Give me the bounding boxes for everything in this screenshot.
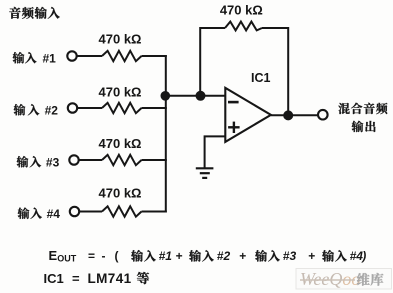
svg-text:470 kΩ: 470 kΩ: [99, 186, 142, 201]
input #3 label 输入 #3: [17, 155, 60, 169]
wire: resistor R1 to summing bus: [142, 55, 167, 57]
wire: summing node to inverting input: [165, 95, 225, 97]
title label: 音频输入 (audio inputs): [9, 7, 60, 19]
svg-text:-: -: [102, 249, 106, 263]
resistor R3 value label 470 kΩ: [99, 136, 142, 151]
svg-text:E: E: [49, 248, 58, 263]
svg-text:#4: #4: [350, 249, 364, 263]
input #4 label 输入 #4: [18, 207, 61, 221]
svg-text:470 kΩ: 470 kΩ: [99, 32, 142, 47]
svg-text:=: =: [88, 249, 95, 263]
output terminal: [318, 110, 328, 120]
svg-text:#4: #4: [47, 207, 61, 221]
wire: non-inverting input to ground: [205, 136, 226, 168]
svg-text:IC1: IC1: [251, 71, 271, 85]
input #4 terminal: [70, 207, 79, 216]
svg-text:OUT: OUT: [57, 254, 76, 264]
ground: [196, 168, 214, 178]
svg-text:#3: #3: [283, 249, 297, 263]
svg-text:+: +: [239, 249, 246, 263]
junction: summing bus to op-amp branch: [161, 91, 171, 101]
resistor R4 value label 470 kΩ: [99, 186, 142, 201]
input #2 terminal: [68, 103, 77, 112]
wire: resistor R4 to summing bus: [142, 211, 167, 213]
note text: IC1 = LM741 等: [44, 271, 150, 286]
feedback resistor R5 470k: [225, 22, 262, 31]
wire: input #2 terminal to resistor R2: [77, 107, 102, 109]
svg-text:470 kΩ: 470 kΩ: [99, 136, 142, 151]
svg-text:#1: #1: [43, 51, 57, 65]
svg-text:#3: #3: [46, 155, 60, 169]
wire: resistor R2 to summing bus: [142, 107, 167, 109]
wire: resistor R3 to summing bus: [142, 159, 167, 161]
wire: input #1 terminal to resistor R1: [77, 55, 102, 57]
svg-text:(: (: [115, 249, 119, 263]
op-amp IC1 triangle: [225, 88, 271, 142]
op-amp IC1 reference label: [251, 71, 271, 85]
svg-text:LM741: LM741: [88, 271, 132, 286]
svg-text:=: =: [72, 271, 80, 286]
svg-text:WeeQoo: WeeQoo: [300, 269, 360, 289]
svg-text:470 kΩ: 470 kΩ: [99, 84, 142, 99]
resistor R2 470k: [102, 103, 142, 113]
feedback resistor value label 470 kΩ: [220, 2, 263, 17]
watermark WeeQoo 维库 (decorative): [296, 269, 392, 290]
resistor R3 470k: [102, 155, 142, 165]
wire: input #4 terminal to resistor R4: [79, 211, 102, 213]
resistor R2 value label 470 kΩ: [99, 84, 142, 99]
svg-text:470 kΩ: 470 kΩ: [220, 2, 263, 17]
junction: output node: [283, 110, 293, 120]
input #1 label 输入 #1: [13, 51, 57, 65]
resistor R1 470k: [102, 51, 142, 61]
op-amp inverting input pin (−): [228, 101, 239, 104]
svg-text:#2: #2: [217, 249, 231, 263]
junction: feedback node at inverting input: [196, 91, 206, 101]
op-amp non-inverting input pin (+): [228, 122, 240, 133]
wire: summing bus vertical: [165, 55, 167, 213]
svg-text:#2: #2: [45, 103, 59, 117]
equation text: EOUT = - (输入 #1 + 输入 #2 + 输入 #3 + 输入 #4): [49, 248, 367, 264]
wire: op-amp output: [271, 114, 318, 116]
svg-text:+: +: [176, 249, 183, 263]
wire: feedback right vertical to output node: [262, 28, 288, 115]
svg-text:#1: #1: [159, 249, 173, 263]
resistor R1 value label 470 kΩ: [99, 32, 142, 47]
input #3 terminal: [69, 155, 78, 164]
svg-text:+: +: [308, 249, 315, 263]
input #1 terminal: [67, 51, 76, 60]
wire: input #3 terminal to resistor R3: [79, 159, 102, 161]
svg-text:IC1: IC1: [44, 271, 64, 286]
output label 混合音频 输出: [338, 103, 387, 132]
input #2 label 输入 #2: [14, 103, 59, 117]
resistor R4 470k: [102, 206, 142, 216]
wire: feedback left vertical: [200, 28, 225, 96]
